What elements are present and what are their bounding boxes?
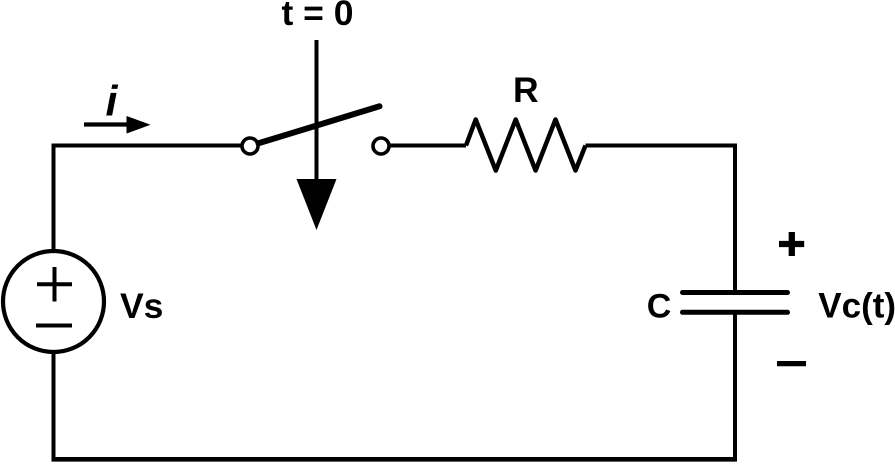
- wire left vertical upper: [52, 144, 56, 253]
- switch lever: [259, 106, 380, 143]
- capacitor minus polarity mark: [777, 361, 806, 366]
- wire right vertical upper: [733, 144, 737, 293]
- capacitor C bottom plate: [683, 310, 788, 315]
- svg-text:Vc(t): Vc(t): [818, 287, 895, 326]
- capacitor plus polarity mark: [779, 232, 804, 256]
- svg-text:t = 0: t = 0: [281, 0, 353, 33]
- svg-text:Vs: Vs: [120, 286, 163, 326]
- resistor R zigzag: [466, 120, 586, 171]
- switch SW left contact: [242, 138, 258, 154]
- wire right vertical lower: [733, 314, 737, 461]
- current arrow i: [84, 116, 151, 134]
- voltage source plus sign: [37, 267, 72, 302]
- wire left vertical lower: [52, 352, 56, 461]
- voltage source Vs circle: [3, 251, 104, 352]
- wire bottom horizontal: [52, 457, 738, 462]
- voltage source minus sign: [36, 324, 72, 328]
- wire switch to resistor and resistor to top-right corner: [391, 144, 467, 148]
- wire top-left horizontal segment: [52, 144, 241, 148]
- switch actuation arrowhead: [297, 179, 337, 230]
- switch actuation arrow shaft: [315, 40, 319, 190]
- switch SW right contact: [373, 138, 389, 154]
- capacitor C top plate: [683, 290, 788, 295]
- svg-text:R: R: [513, 70, 539, 110]
- svg-text:i: i: [106, 78, 119, 126]
- svg-text:C: C: [647, 288, 672, 326]
